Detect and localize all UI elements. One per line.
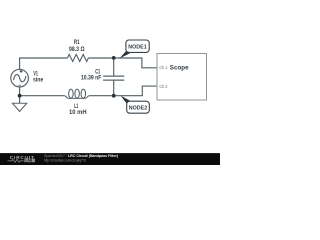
svg-text:Ch 1: Ch 1 xyxy=(159,65,167,71)
svg-text:SpartanS507 / LRC Circuit (Ban: SpartanS507 / LRC Circuit (Bandpass Filt… xyxy=(44,154,119,158)
circuitlab logo xyxy=(8,155,35,163)
resistor R1 xyxy=(67,54,88,61)
junction dot at ground node xyxy=(18,94,22,98)
footer bar xyxy=(0,153,220,165)
wire V1 bottom xyxy=(19,87,21,96)
node flag NODE2 xyxy=(121,96,150,114)
wire from R1 right to scope Ch1 pin xyxy=(88,58,157,68)
svg-text:NODE2: NODE2 xyxy=(129,106,147,112)
svg-text:NODE1: NODE1 xyxy=(128,44,146,50)
svg-text:R1: R1 xyxy=(74,39,80,46)
svg-text:http://circuitlab.com/c2sq4g77: http://circuitlab.com/c2sq4g776 xyxy=(44,159,86,163)
wire from V1 top to R1 left xyxy=(20,58,68,69)
svg-text:sine: sine xyxy=(33,76,44,83)
svg-text:Scope: Scope xyxy=(170,64,189,71)
voltage source V1 xyxy=(11,69,29,87)
svg-text:98.3 Ω: 98.3 Ω xyxy=(69,46,85,53)
footer title text xyxy=(44,154,119,163)
wire C1 top stub xyxy=(113,58,115,76)
wire C1 bottom stub xyxy=(113,80,115,96)
node flag NODE1 xyxy=(120,40,150,58)
inductor L1 xyxy=(64,89,90,98)
wire bottom left to L1 xyxy=(20,95,64,97)
svg-text:10.39 nF: 10.39 nF xyxy=(81,74,102,81)
wire bottom right to scope Ch2 pin xyxy=(90,86,157,96)
svg-text:LAB: LAB xyxy=(25,159,33,163)
svg-text:Ch 2: Ch 2 xyxy=(159,84,167,90)
junction dot at C1 bottom xyxy=(112,94,116,98)
junction dot at C1 top xyxy=(112,56,116,60)
scope U1 xyxy=(157,54,207,101)
capacitor C1 xyxy=(103,76,124,80)
ground xyxy=(12,96,26,112)
svg-text:10 mH: 10 mH xyxy=(69,109,87,116)
